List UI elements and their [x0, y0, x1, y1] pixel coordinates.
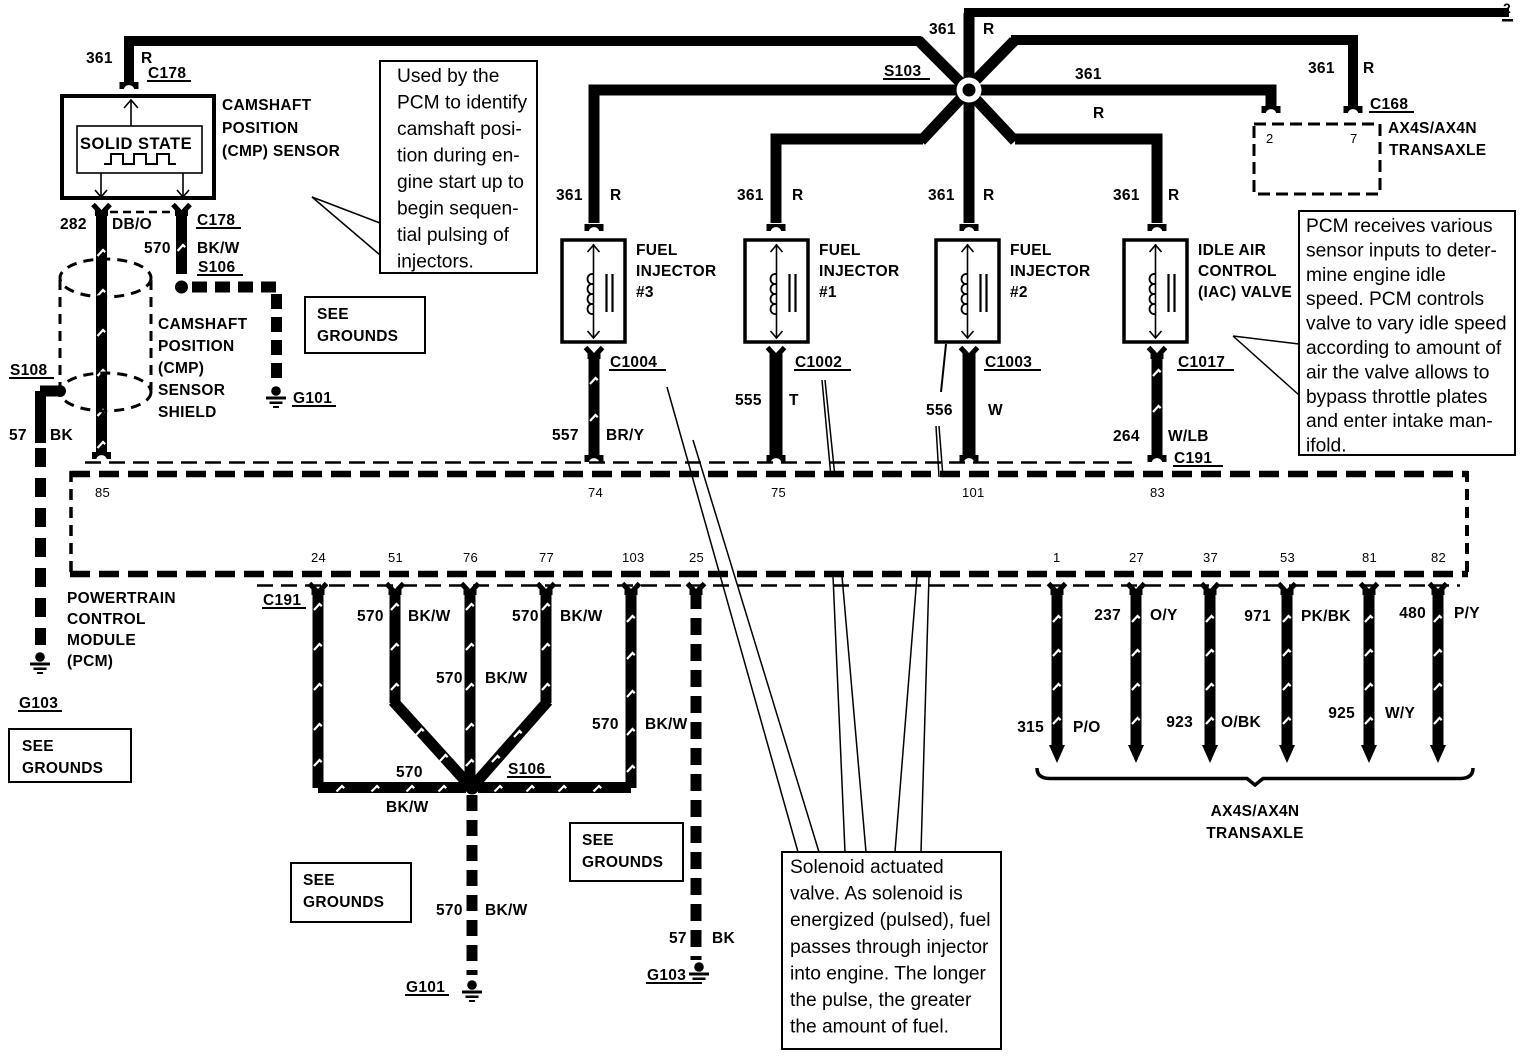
- svg-text:R: R: [1093, 105, 1105, 122]
- svg-text:valve to vary idle speed: valve to vary idle speed: [1306, 314, 1507, 335]
- svg-text:Used by the: Used by the: [397, 66, 499, 87]
- svg-text:R: R: [983, 187, 995, 204]
- svg-text:361: 361: [1113, 187, 1140, 204]
- svg-text:W: W: [988, 402, 1003, 419]
- svg-text:555: 555: [735, 392, 762, 409]
- svg-text:POSITION: POSITION: [158, 338, 234, 355]
- svg-text:Solenoid actuated: Solenoid actuated: [790, 857, 944, 878]
- svg-text:tion during en-: tion during en-: [397, 146, 520, 167]
- svg-text:SHIELD: SHIELD: [158, 404, 217, 421]
- svg-text:361: 361: [928, 187, 955, 204]
- svg-text:GROUNDS: GROUNDS: [317, 328, 398, 345]
- svg-text:#3: #3: [636, 284, 654, 301]
- svg-text:INJECTOR: INJECTOR: [636, 263, 717, 280]
- svg-text:G103: G103: [647, 967, 686, 984]
- svg-text:C1002: C1002: [795, 354, 842, 371]
- svg-text:gine start up to: gine start up to: [397, 172, 524, 193]
- svg-text:bypass throttle plates: bypass throttle plates: [1306, 387, 1487, 408]
- svg-text:SOLID STATE: SOLID STATE: [80, 135, 192, 153]
- svg-text:R: R: [983, 21, 995, 38]
- svg-text:S103: S103: [884, 63, 921, 80]
- svg-text:BK: BK: [50, 427, 73, 444]
- svg-text:BK/W: BK/W: [485, 670, 528, 687]
- svg-text:tial pulsing of: tial pulsing of: [397, 225, 510, 246]
- svg-text:R: R: [1363, 60, 1375, 77]
- svg-text:77: 77: [539, 550, 554, 565]
- svg-text:TRANSAXLE: TRANSAXLE: [1206, 825, 1303, 842]
- svg-text:R: R: [1168, 187, 1180, 204]
- svg-text:2: 2: [1266, 131, 1274, 146]
- svg-text:361: 361: [929, 21, 956, 38]
- svg-text:ifold.: ifold.: [1306, 436, 1347, 457]
- svg-text:the pulse, the greater: the pulse, the greater: [790, 990, 972, 1011]
- svg-text:C178: C178: [197, 212, 235, 229]
- svg-text:C178: C178: [148, 65, 186, 82]
- svg-text:75: 75: [771, 485, 786, 500]
- svg-text:G103: G103: [19, 695, 58, 712]
- svg-text:energized (pulsed), fuel: energized (pulsed), fuel: [790, 910, 991, 931]
- svg-text:speed. PCM controls: speed. PCM controls: [1306, 289, 1484, 310]
- svg-text:POWERTRAIN: POWERTRAIN: [67, 590, 176, 607]
- svg-text:570: 570: [144, 240, 171, 257]
- svg-text:P/O: P/O: [1073, 719, 1101, 736]
- svg-text:according to amount of: according to amount of: [1306, 338, 1502, 359]
- svg-text:480: 480: [1399, 605, 1426, 622]
- svg-text:W/LB: W/LB: [1168, 428, 1209, 445]
- svg-text:24: 24: [311, 550, 326, 565]
- svg-text:315: 315: [1017, 719, 1044, 736]
- svg-text:SEE: SEE: [22, 738, 54, 755]
- svg-text:C191: C191: [263, 592, 301, 609]
- svg-text:(CMP): (CMP): [158, 360, 204, 377]
- svg-text:925: 925: [1328, 705, 1355, 722]
- svg-text:282: 282: [60, 216, 87, 233]
- svg-text:R: R: [610, 187, 622, 204]
- svg-text:POSITION: POSITION: [222, 120, 298, 137]
- svg-text:CAMSHAFT: CAMSHAFT: [222, 97, 312, 114]
- svg-text:passes through injector: passes through injector: [790, 937, 989, 958]
- svg-text:G101: G101: [406, 979, 445, 996]
- svg-text:570: 570: [592, 716, 619, 733]
- svg-text:camshaft posi-: camshaft posi-: [397, 119, 522, 140]
- svg-text:361: 361: [556, 187, 583, 204]
- svg-text:CAMSHAFT: CAMSHAFT: [158, 316, 248, 333]
- svg-text:(IAC) VALVE: (IAC) VALVE: [1198, 284, 1292, 301]
- svg-text:AX4S/AX4N: AX4S/AX4N: [1388, 120, 1477, 137]
- svg-text:57: 57: [9, 427, 27, 444]
- svg-text:37: 37: [1203, 550, 1218, 565]
- svg-text:T: T: [789, 392, 799, 409]
- svg-text:264: 264: [1113, 428, 1140, 445]
- svg-text:556: 556: [926, 402, 953, 419]
- svg-text:BK/W: BK/W: [485, 902, 528, 919]
- svg-text:PK/BK: PK/BK: [1301, 608, 1351, 625]
- svg-text:C1017: C1017: [1178, 354, 1225, 371]
- svg-text:S106: S106: [198, 259, 235, 276]
- svg-text:27: 27: [1129, 550, 1144, 565]
- svg-text:C1003: C1003: [985, 354, 1032, 371]
- svg-text:83: 83: [1150, 485, 1165, 500]
- svg-text:C1004: C1004: [610, 354, 657, 371]
- svg-text:MODULE: MODULE: [67, 632, 136, 649]
- svg-text:BR/Y: BR/Y: [606, 427, 645, 444]
- svg-text:GROUNDS: GROUNDS: [582, 854, 663, 871]
- svg-text:BK/W: BK/W: [408, 608, 451, 625]
- svg-text:begin sequen-: begin sequen-: [397, 199, 519, 220]
- svg-text:85: 85: [95, 485, 110, 500]
- svg-text:R: R: [792, 187, 804, 204]
- svg-text:SEE: SEE: [582, 832, 614, 849]
- svg-text:SEE: SEE: [303, 872, 335, 889]
- svg-text:361: 361: [86, 50, 113, 67]
- svg-text:82: 82: [1431, 550, 1446, 565]
- svg-text:361: 361: [1308, 60, 1335, 77]
- svg-text:361: 361: [737, 187, 764, 204]
- svg-text:(PCM): (PCM): [67, 653, 113, 670]
- svg-text:and enter intake man-: and enter intake man-: [1306, 411, 1493, 432]
- svg-text:O/BK: O/BK: [1221, 714, 1261, 731]
- svg-text:mine engine idle: mine engine idle: [1306, 265, 1446, 286]
- svg-text:GROUNDS: GROUNDS: [303, 894, 384, 911]
- svg-text:TRANSAXLE: TRANSAXLE: [1389, 142, 1486, 159]
- svg-text:BK/W: BK/W: [386, 799, 429, 816]
- svg-text:923: 923: [1166, 714, 1193, 731]
- svg-text:BK/W: BK/W: [560, 608, 603, 625]
- svg-text:103: 103: [622, 550, 645, 565]
- svg-text:C168: C168: [1370, 96, 1408, 113]
- svg-text:#2: #2: [1010, 284, 1028, 301]
- svg-text:BK/W: BK/W: [645, 716, 688, 733]
- svg-text:BK: BK: [712, 930, 735, 947]
- svg-text:FUEL: FUEL: [819, 242, 861, 259]
- svg-text:SEE: SEE: [317, 306, 349, 323]
- svg-text:W/Y: W/Y: [1385, 705, 1416, 722]
- svg-text:DB/O: DB/O: [112, 216, 152, 233]
- svg-text:#1: #1: [819, 284, 837, 301]
- svg-text:FUEL: FUEL: [636, 242, 678, 259]
- svg-text:PCM to identify: PCM to identify: [397, 93, 528, 114]
- svg-text:IDLE AIR: IDLE AIR: [1198, 242, 1266, 259]
- svg-text:101: 101: [962, 485, 985, 500]
- svg-text:injectors.: injectors.: [397, 252, 474, 273]
- svg-text:25: 25: [689, 550, 704, 565]
- svg-text:the amount of fuel.: the amount of fuel.: [790, 1017, 949, 1038]
- svg-text:570: 570: [512, 608, 539, 625]
- svg-text:7: 7: [1350, 131, 1358, 146]
- svg-text:sensor inputs to deter-: sensor inputs to deter-: [1306, 240, 1497, 261]
- svg-text:1: 1: [1053, 550, 1061, 565]
- svg-text:74: 74: [588, 485, 603, 500]
- svg-text:570: 570: [436, 902, 463, 919]
- svg-text:INJECTOR: INJECTOR: [819, 263, 900, 280]
- svg-text:C191: C191: [1174, 450, 1212, 467]
- svg-text:53: 53: [1280, 550, 1295, 565]
- svg-text:FUEL: FUEL: [1010, 242, 1052, 259]
- svg-text:O/Y: O/Y: [1150, 607, 1178, 624]
- svg-text:GROUNDS: GROUNDS: [22, 760, 103, 777]
- svg-text:76: 76: [463, 550, 478, 565]
- svg-text:SENSOR: SENSOR: [158, 382, 225, 399]
- svg-text:361: 361: [1075, 66, 1102, 83]
- svg-text:into engine. The longer: into engine. The longer: [790, 963, 987, 984]
- svg-text:81: 81: [1362, 550, 1377, 565]
- svg-text:CONTROL: CONTROL: [1198, 263, 1277, 280]
- svg-text:570: 570: [436, 670, 463, 687]
- svg-text:S106: S106: [508, 761, 545, 778]
- svg-text:valve. As solenoid is: valve. As solenoid is: [790, 884, 963, 905]
- svg-text:557: 557: [552, 427, 579, 444]
- svg-text:57: 57: [669, 930, 687, 947]
- svg-text:S108: S108: [10, 362, 47, 379]
- svg-text:AX4S/AX4N: AX4S/AX4N: [1211, 803, 1300, 820]
- svg-text:51: 51: [388, 550, 403, 565]
- svg-text:BK/W: BK/W: [197, 240, 240, 257]
- svg-text:570: 570: [357, 608, 384, 625]
- svg-text:237: 237: [1094, 607, 1121, 624]
- svg-text:2: 2: [1503, 0, 1511, 16]
- svg-text:P/Y: P/Y: [1454, 605, 1480, 622]
- svg-text:(CMP) SENSOR: (CMP) SENSOR: [222, 143, 340, 160]
- svg-text:570: 570: [396, 764, 423, 781]
- svg-text:971: 971: [1244, 608, 1271, 625]
- svg-text:G101: G101: [293, 390, 332, 407]
- svg-text:CONTROL: CONTROL: [67, 611, 146, 628]
- svg-text:PCM receives various: PCM receives various: [1306, 216, 1493, 237]
- svg-text:INJECTOR: INJECTOR: [1010, 263, 1091, 280]
- svg-text:air the valve allows to: air the valve allows to: [1306, 362, 1489, 383]
